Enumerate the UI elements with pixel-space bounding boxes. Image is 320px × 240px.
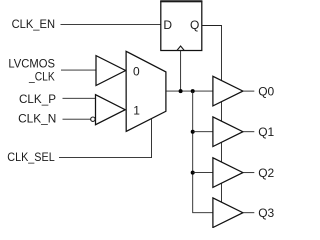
wire Q2 output <box>243 172 254 174</box>
buffer Q0 <box>213 76 243 106</box>
wire enable chain Q0 to Q1 <box>221 102 223 121</box>
mux 2:1 <box>126 51 166 131</box>
buffer Q1 <box>213 117 243 147</box>
svg-text:CLK_P: CLK_P <box>19 92 56 106</box>
wire enable chain Q2 to Q3 <box>221 183 223 202</box>
junction dot vertical bus tap <box>191 89 195 93</box>
svg-text:1: 1 <box>133 104 140 118</box>
wire CLK_N to inversion bubble <box>63 118 91 120</box>
svg-text:0: 0 <box>133 64 140 78</box>
buffer differential receiver <box>96 95 126 125</box>
wire LVCMOS_CLK to buffer <box>61 69 96 71</box>
svg-text:CLK_SEL: CLK_SEL <box>7 150 55 164</box>
inversion bubble on CLK_N input <box>91 117 95 121</box>
svg-text:_CLK: _CLK <box>28 69 55 83</box>
junction dot Q1 tap <box>191 130 195 134</box>
wire Q1 input stub <box>193 131 213 133</box>
buffer Q2 <box>213 158 243 188</box>
svg-text:Q1: Q1 <box>258 125 274 139</box>
svg-text:Q: Q <box>190 18 199 32</box>
junction dot Q2 tap <box>191 171 195 175</box>
buffer Q3 <box>213 198 243 228</box>
wire CLK_EN to D input <box>61 23 161 25</box>
clock edge caret of flip-flop <box>177 46 184 50</box>
wire enable chain Q1 to Q2 <box>221 142 223 162</box>
wire Q2 input stub <box>193 172 213 174</box>
svg-text:Q2: Q2 <box>258 166 274 180</box>
wire Q3 output <box>243 212 254 214</box>
wire clock vertical to flip-flop <box>180 51 182 92</box>
svg-text:CLK_EN: CLK_EN <box>12 17 55 31</box>
svg-text:Q0: Q0 <box>258 85 274 99</box>
svg-text:Q3: Q3 <box>258 206 274 220</box>
svg-text:CLK_N: CLK_N <box>18 112 56 126</box>
wire Q output of flip-flop to Q0 buffer enable <box>202 26 222 81</box>
wire CLK_P to diff buffer <box>63 97 96 99</box>
wire mux output bus <box>166 90 213 92</box>
D flip-flop U1 <box>160 1 202 50</box>
svg-text:D: D <box>163 18 172 32</box>
buffer LVCMOS input <box>96 56 126 86</box>
wire vertical distribution bus <box>193 91 213 213</box>
wire Q0 output <box>243 90 254 92</box>
wire CLK_SEL to mux select <box>59 119 152 158</box>
junction dot clock tap <box>179 89 183 93</box>
wire Q1 output <box>243 131 254 133</box>
